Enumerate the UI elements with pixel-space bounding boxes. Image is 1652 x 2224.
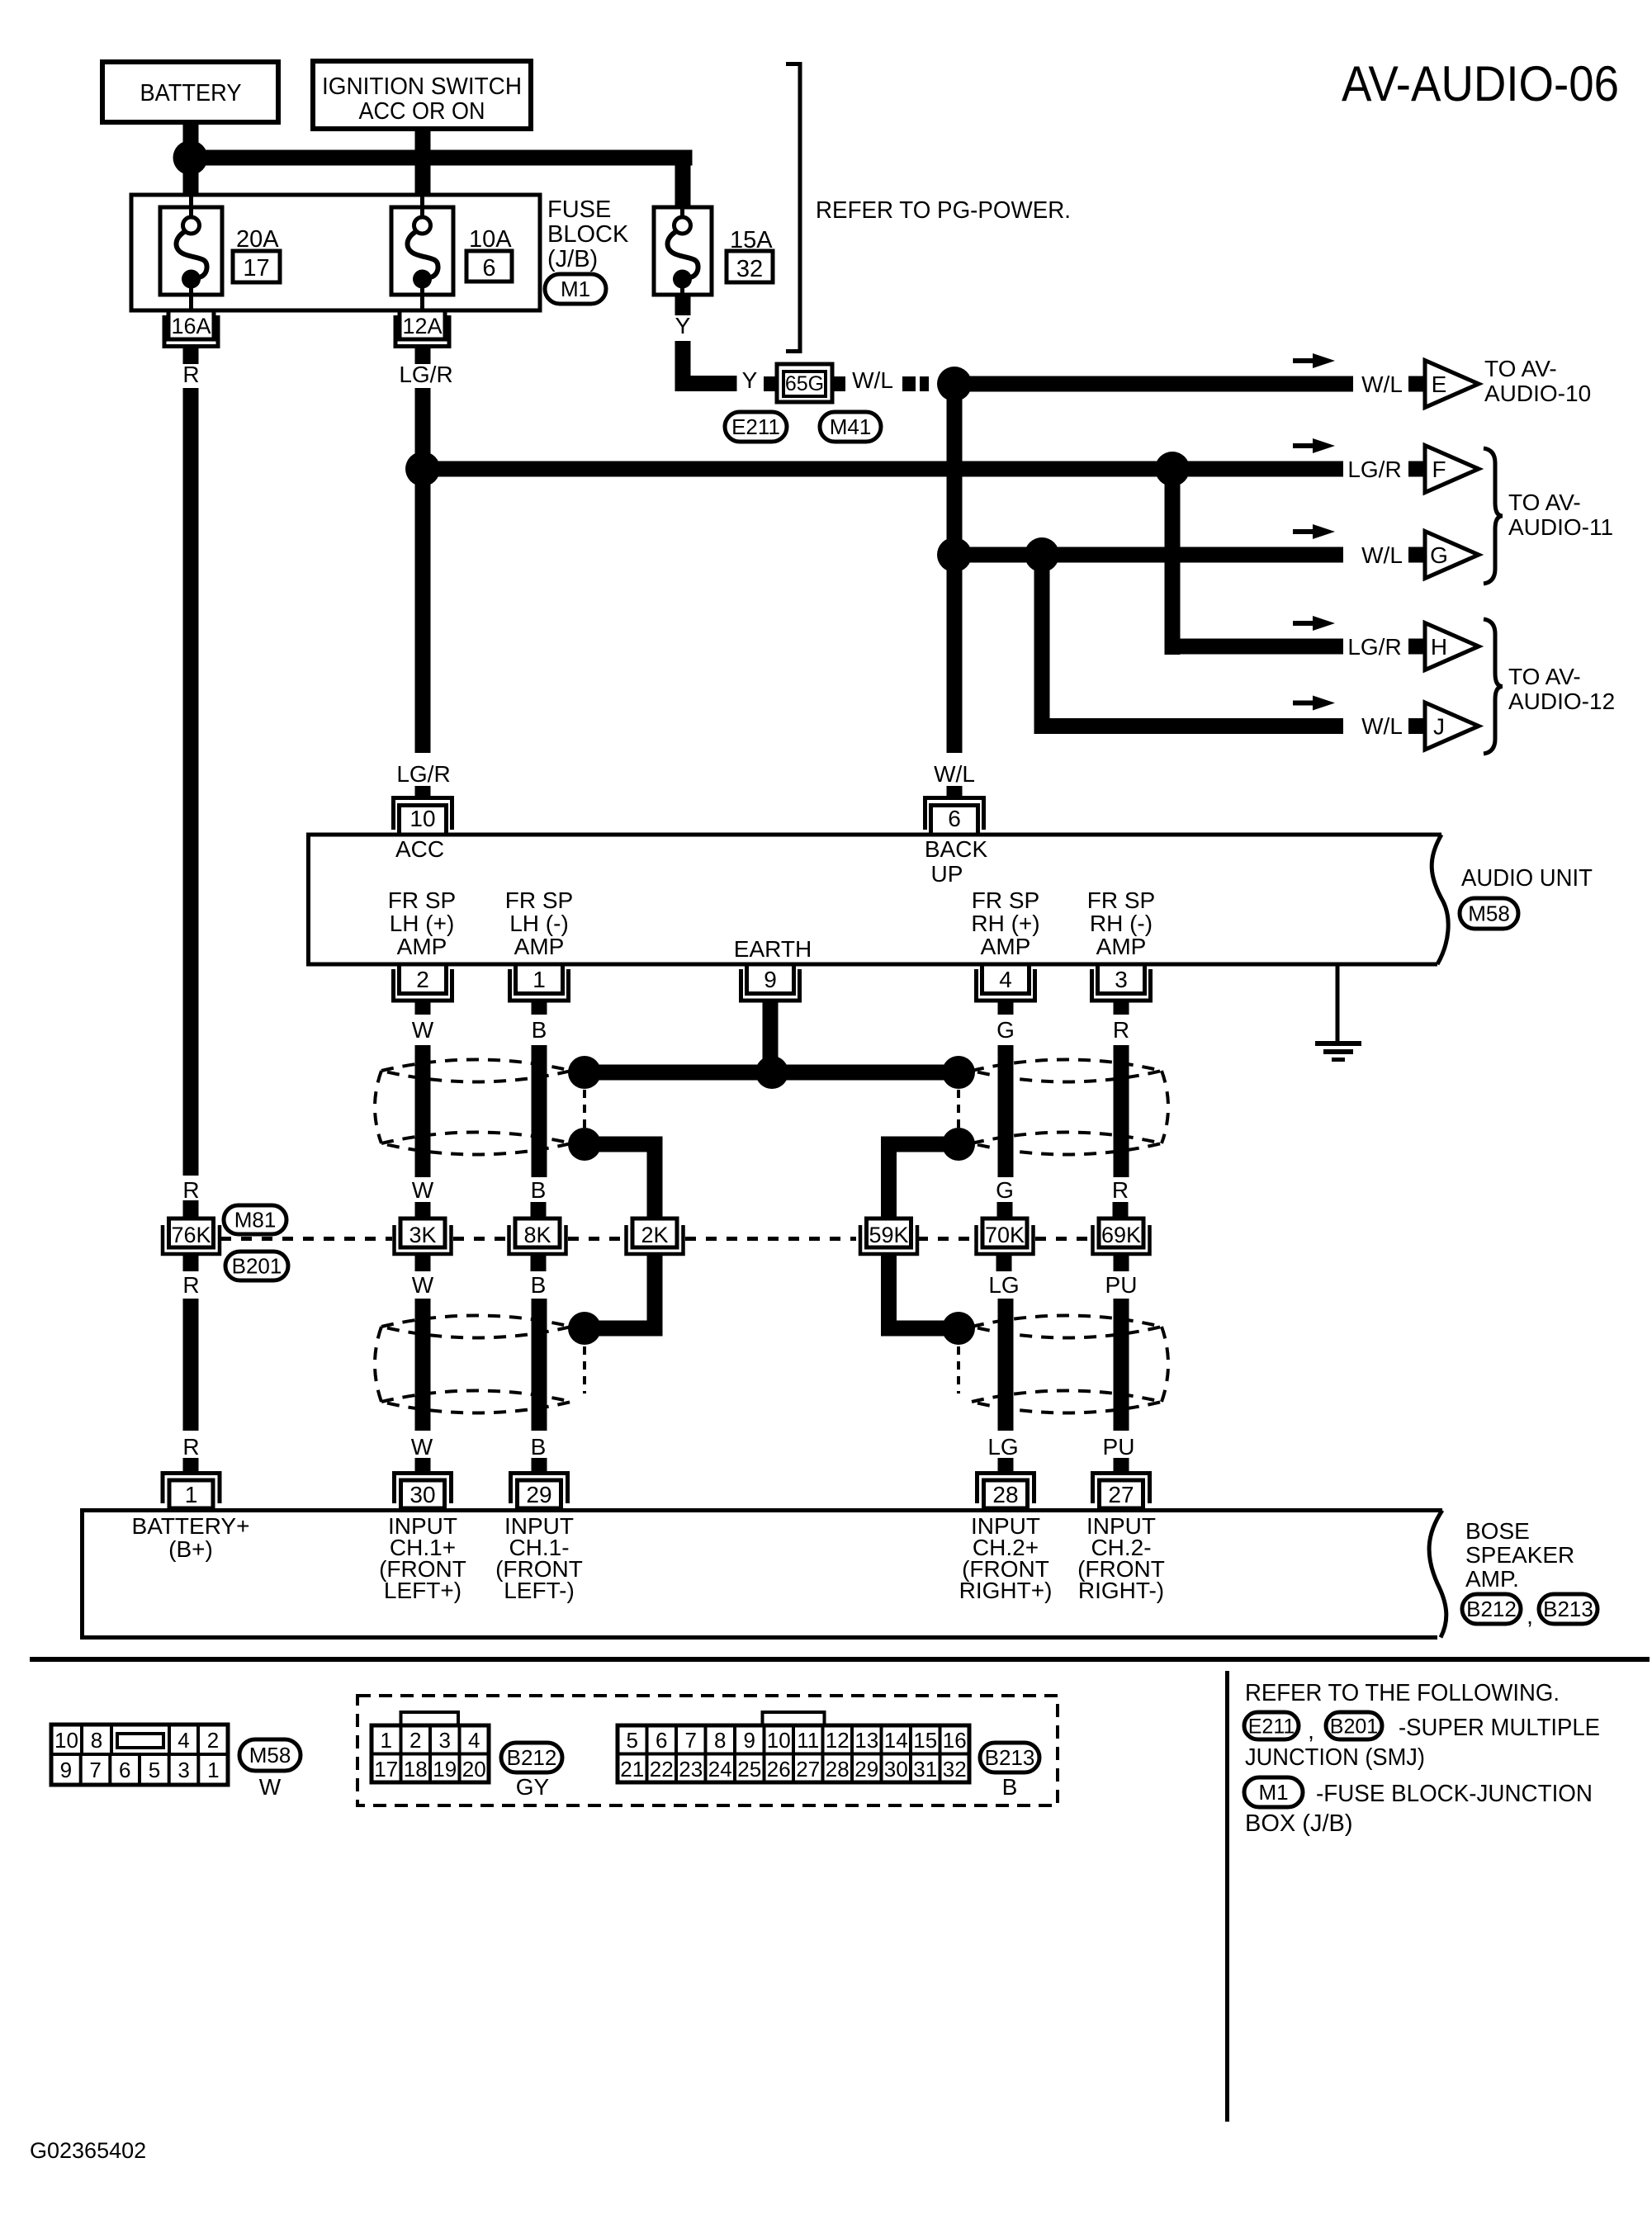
wire stub — [1114, 1256, 1129, 1271]
svg-text:LG/R: LG/R — [1347, 457, 1401, 482]
connector M58 oval — [239, 1739, 301, 1771]
svg-text:LG/R: LG/R — [396, 761, 450, 787]
ignition switch box — [313, 61, 531, 129]
svg-text:AMP: AMP — [397, 934, 447, 959]
svg-text:LEFT-): LEFT-) — [504, 1578, 575, 1603]
svg-text:17: 17 — [243, 255, 269, 282]
page arrow H — [1408, 639, 1424, 655]
svg-text:AUDIO-10: AUDIO-10 — [1484, 381, 1591, 406]
connector face M58 — [51, 1725, 228, 1785]
svg-text:M81: M81 — [234, 1208, 277, 1233]
svg-text:W: W — [412, 1272, 434, 1298]
connector M1 oval — [545, 274, 606, 304]
svg-text:BATTERY+: BATTERY+ — [132, 1513, 250, 1539]
wire LG/R vertical upper — [415, 388, 431, 753]
svg-text:6: 6 — [119, 1758, 130, 1782]
flow arrow — [1293, 358, 1318, 363]
svg-text:13: 13 — [854, 1728, 878, 1753]
wire LG/R to F — [423, 461, 1343, 477]
wire ignition feed — [415, 129, 431, 195]
fuse 10A #6 — [391, 207, 453, 295]
svg-text:LEFT+): LEFT+) — [384, 1578, 462, 1603]
shield front-right — [972, 1060, 1162, 1082]
brace AV-AUDIO-12 — [1484, 619, 1503, 754]
svg-text:10: 10 — [54, 1728, 78, 1753]
svg-text:B201: B201 — [232, 1254, 282, 1279]
svg-text:FR SP: FR SP — [1087, 887, 1155, 913]
connector B212 oval — [501, 1743, 562, 1772]
connector M81 oval — [224, 1205, 286, 1234]
connector M58 oval — [1460, 898, 1518, 929]
wire stub — [415, 1256, 431, 1271]
svg-text:UP: UP — [931, 861, 963, 887]
svg-text:23: 23 — [679, 1757, 703, 1782]
svg-text:59K: 59K — [869, 1223, 908, 1247]
brace AV-AUDIO-11 — [1484, 448, 1503, 584]
wire earth bus — [585, 1065, 959, 1081]
page arrow G — [1408, 547, 1424, 563]
junction dot shield FR — [942, 1128, 975, 1161]
pin 27 — [1100, 1480, 1143, 1508]
shield rear-right — [972, 1316, 1162, 1338]
fuse 20A #17 — [160, 207, 222, 295]
wire stub pin6 — [947, 786, 963, 796]
connector 16A — [168, 310, 214, 339]
svg-text:21: 21 — [620, 1757, 644, 1782]
svg-text:RIGHT-): RIGHT-) — [1078, 1578, 1164, 1603]
connector 70K — [982, 1218, 1027, 1247]
svg-text:TO AV-: TO AV- — [1508, 490, 1581, 515]
svg-text:G02365402: G02365402 — [30, 2138, 146, 2163]
dashed group box — [357, 1696, 1058, 1805]
svg-text:27: 27 — [1108, 1482, 1134, 1507]
svg-text:9: 9 — [764, 967, 777, 992]
svg-text:3K: 3K — [409, 1223, 436, 1247]
wire J drop — [1034, 555, 1050, 734]
svg-text:B212: B212 — [1466, 1597, 1517, 1621]
wire — [415, 1299, 431, 1431]
svg-text:30: 30 — [409, 1482, 435, 1507]
svg-text:R: R — [1113, 1017, 1129, 1043]
wire stub 16A — [183, 346, 199, 364]
separator line — [30, 1657, 1650, 1662]
svg-text:16A: 16A — [171, 314, 211, 338]
svg-text:69K: 69K — [1101, 1223, 1141, 1247]
svg-text:B: B — [1002, 1774, 1018, 1800]
wire power bus — [183, 150, 693, 166]
svg-text:2K: 2K — [641, 1223, 668, 1247]
svg-text:M41: M41 — [830, 414, 872, 439]
wire 2K lower — [647, 1254, 663, 1337]
svg-text:AMP: AMP — [981, 934, 1031, 959]
svg-text:FR SP: FR SP — [388, 887, 456, 913]
junction dot shield RL — [568, 1312, 601, 1345]
svg-text:W/L: W/L — [852, 367, 893, 393]
pin 29 — [518, 1480, 561, 1508]
svg-text:BOSE: BOSE — [1465, 1518, 1530, 1544]
svg-text:AMP: AMP — [514, 934, 565, 959]
wire battery feed — [183, 122, 199, 195]
wire — [532, 1299, 547, 1431]
wire — [1114, 1299, 1129, 1431]
svg-text:RH (-): RH (-) — [1090, 911, 1153, 936]
svg-text:1: 1 — [185, 1482, 198, 1507]
connector M1 oval — [1244, 1777, 1303, 1807]
svg-text:65G: 65G — [785, 372, 824, 395]
svg-text:IGNITION SWITCH: IGNITION SWITCH — [322, 73, 522, 100]
junction dot shield RR — [942, 1312, 975, 1345]
junction dot W/L bus — [937, 367, 972, 401]
wire stub — [532, 1001, 547, 1015]
wire battery R lower — [183, 1299, 199, 1431]
connector 12A — [400, 310, 445, 339]
wire stub — [183, 1256, 199, 1271]
wire stub — [531, 1202, 547, 1217]
connector B201 oval — [1326, 1712, 1382, 1739]
connector face B213 — [763, 1712, 825, 1725]
dashed link — [583, 1346, 586, 1394]
connector 76K — [169, 1218, 214, 1247]
wire — [415, 1045, 431, 1177]
svg-text:J: J — [1433, 714, 1445, 740]
svg-text:RH (+): RH (+) — [971, 911, 1039, 936]
svg-text:16: 16 — [943, 1728, 967, 1753]
svg-text:28: 28 — [992, 1482, 1018, 1507]
svg-text:30: 30 — [884, 1757, 908, 1782]
pin 6 — [931, 806, 978, 835]
svg-text:15: 15 — [913, 1728, 937, 1753]
svg-text:9: 9 — [60, 1758, 72, 1782]
pin 1 — [516, 964, 563, 994]
svg-text:EARTH: EARTH — [734, 936, 812, 962]
svg-text:RIGHT+): RIGHT+) — [959, 1578, 1053, 1603]
svg-text:24: 24 — [708, 1757, 732, 1782]
junction dot shield FL — [568, 1128, 601, 1161]
svg-text:G: G — [1430, 542, 1448, 568]
svg-text:32: 32 — [736, 256, 763, 282]
wire H drop — [1165, 469, 1181, 655]
svg-text:1: 1 — [381, 1728, 392, 1753]
wire stub — [415, 1458, 431, 1472]
shield rear-left — [381, 1316, 571, 1338]
wire W/L to E — [954, 376, 1353, 392]
connector 69K — [1099, 1218, 1143, 1247]
svg-text:M58: M58 — [1468, 901, 1510, 926]
svg-text:2: 2 — [416, 967, 429, 992]
legend divider — [1225, 1671, 1229, 2122]
flow arrow — [1293, 529, 1318, 534]
svg-text:B213: B213 — [985, 1745, 1035, 1770]
wire — [532, 1045, 547, 1177]
wire 59K lower — [881, 1254, 897, 1337]
page arrow J — [1408, 718, 1424, 734]
junction dot earth right — [942, 1056, 975, 1089]
svg-text:M1: M1 — [1258, 1780, 1288, 1805]
svg-text:-SUPER MULTIPLE: -SUPER MULTIPLE — [1399, 1715, 1600, 1741]
svg-text:11: 11 — [797, 1728, 819, 1753]
wire dash — [920, 376, 929, 391]
svg-text:Y: Y — [742, 367, 758, 393]
svg-text:20A: 20A — [236, 226, 279, 253]
svg-text:18: 18 — [404, 1757, 428, 1782]
svg-text:B201: B201 — [1330, 1715, 1378, 1739]
svg-text:(J/B): (J/B) — [547, 246, 598, 272]
svg-text:6: 6 — [482, 255, 495, 282]
svg-text:E211: E211 — [1248, 1715, 1295, 1739]
dashed link — [957, 1090, 960, 1128]
svg-text:8: 8 — [91, 1728, 102, 1753]
svg-text:3: 3 — [178, 1758, 189, 1782]
svg-text:LH (-): LH (-) — [509, 911, 569, 936]
fuse 15A #32 — [654, 207, 712, 295]
audio unit box — [309, 835, 1442, 964]
junction dot earth left — [568, 1056, 601, 1089]
svg-text:-FUSE BLOCK-JUNCTION: -FUSE BLOCK-JUNCTION — [1316, 1781, 1593, 1807]
svg-text:REFER TO THE FOLLOWING.: REFER TO THE FOLLOWING. — [1245, 1680, 1560, 1706]
connector B201 oval — [225, 1252, 288, 1280]
pin 4 — [982, 964, 1030, 994]
svg-text:Y: Y — [675, 313, 691, 338]
connector 2K — [632, 1218, 677, 1247]
svg-text:AMP.: AMP. — [1465, 1566, 1519, 1592]
wire shield drain left — [585, 1137, 663, 1152]
connector B213 oval — [980, 1743, 1039, 1772]
svg-text:W: W — [259, 1774, 282, 1800]
connector E211 oval — [725, 412, 787, 442]
svg-text:4: 4 — [178, 1728, 189, 1753]
svg-text:26: 26 — [767, 1757, 791, 1782]
svg-text:14: 14 — [884, 1728, 908, 1753]
svg-text:29: 29 — [526, 1482, 551, 1507]
junction dot LG/R — [405, 452, 440, 486]
svg-text:R: R — [1112, 1177, 1129, 1203]
svg-text:W/L: W/L — [934, 761, 975, 787]
svg-text:25: 25 — [737, 1757, 761, 1782]
terminal 32 box — [727, 251, 773, 282]
svg-text:ACC: ACC — [395, 836, 444, 862]
svg-text:6: 6 — [656, 1728, 667, 1753]
junction dot H drop — [1155, 452, 1190, 486]
svg-text:1: 1 — [207, 1758, 219, 1782]
svg-text:AUDIO-11: AUDIO-11 — [1508, 514, 1613, 540]
wire stub — [531, 1256, 547, 1271]
svg-text:AUDIO-12: AUDIO-12 — [1508, 688, 1615, 714]
svg-text:LH (+): LH (+) — [390, 911, 455, 936]
wire stub — [183, 1458, 199, 1472]
svg-text:SPEAKER: SPEAKER — [1465, 1542, 1574, 1568]
dashed link — [957, 1346, 960, 1394]
svg-text:B212: B212 — [507, 1745, 557, 1770]
svg-text:M58: M58 — [249, 1743, 291, 1767]
svg-text:BLOCK: BLOCK — [547, 221, 629, 248]
wire battery R vertical — [183, 388, 199, 1176]
bose speaker amp box — [83, 1511, 1443, 1638]
svg-text:LG/R: LG/R — [1347, 634, 1401, 660]
svg-text:4: 4 — [999, 967, 1012, 992]
junction dot earth mid — [755, 1056, 788, 1089]
connector 59K — [867, 1218, 911, 1247]
svg-text:29: 29 — [854, 1757, 878, 1782]
wire stub — [183, 1200, 199, 1217]
svg-text:E: E — [1432, 371, 1447, 397]
wire stub — [996, 1256, 1012, 1271]
pin 28 — [984, 1480, 1028, 1508]
svg-text:(B+): (B+) — [168, 1536, 213, 1562]
svg-text:W/L: W/L — [1361, 371, 1403, 397]
junction dot battery bus — [173, 140, 208, 175]
svg-text:6: 6 — [948, 806, 961, 831]
connector 8K — [515, 1218, 560, 1247]
svg-text:REFER TO PG-POWER.: REFER TO PG-POWER. — [816, 197, 1071, 224]
svg-text:G: G — [996, 1177, 1014, 1203]
wire stub — [415, 1001, 431, 1015]
svg-text:5: 5 — [149, 1758, 160, 1782]
dashed link — [583, 1090, 586, 1128]
pin 10 — [400, 806, 447, 835]
wire H row — [1165, 639, 1344, 655]
wire — [998, 1045, 1014, 1177]
svg-text:BACK: BACK — [925, 836, 988, 862]
svg-text:W: W — [411, 1434, 433, 1460]
wire stub pin10 — [415, 786, 431, 796]
wire — [1114, 1045, 1129, 1177]
svg-text:2: 2 — [409, 1728, 421, 1753]
wire dash — [902, 376, 916, 391]
wire Y elbow — [675, 341, 691, 391]
svg-text:2: 2 — [207, 1728, 219, 1753]
bracket refer to PG-POWER — [786, 64, 800, 352]
svg-text:R: R — [182, 1272, 199, 1298]
svg-text:FR SP: FR SP — [505, 887, 573, 913]
svg-text:R: R — [182, 362, 199, 387]
connector M41 oval — [820, 412, 881, 442]
pin 3 — [1098, 964, 1145, 994]
battery box — [102, 62, 278, 122]
connector E211 oval — [1244, 1712, 1299, 1739]
wire J row — [1034, 718, 1344, 734]
svg-text:FUSE: FUSE — [547, 196, 611, 223]
svg-text:LG: LG — [988, 1272, 1019, 1298]
svg-text:,: , — [1527, 1603, 1533, 1629]
svg-text:F: F — [1432, 457, 1446, 482]
svg-text:TO AV-: TO AV- — [1508, 664, 1581, 689]
page arrow E — [1408, 376, 1424, 392]
svg-text:LG/R: LG/R — [399, 362, 452, 387]
svg-text:W/L: W/L — [1361, 713, 1403, 739]
svg-text:H: H — [1431, 634, 1447, 660]
wire W/L main vertical — [947, 384, 963, 753]
shield front-left — [381, 1060, 571, 1082]
wire stub — [998, 1458, 1014, 1472]
svg-text:JUNCTION (SMJ): JUNCTION (SMJ) — [1245, 1744, 1425, 1771]
svg-text:12: 12 — [826, 1728, 850, 1753]
svg-text:7: 7 — [89, 1758, 101, 1782]
wire stub — [997, 1202, 1013, 1217]
wire dash — [764, 376, 776, 391]
svg-text:R: R — [182, 1177, 199, 1203]
svg-text:,: , — [1308, 1718, 1314, 1744]
pin 2 — [400, 964, 447, 994]
connector 65G — [777, 364, 832, 402]
svg-text:28: 28 — [826, 1757, 850, 1782]
svg-text:PU: PU — [1103, 1434, 1135, 1460]
svg-text:9: 9 — [744, 1728, 755, 1753]
svg-text:W: W — [412, 1177, 434, 1203]
svg-text:M1: M1 — [561, 277, 590, 301]
wire stub 12A — [415, 346, 431, 364]
page arrow F — [1408, 461, 1424, 477]
wire stub — [998, 1001, 1014, 1015]
svg-text:AV-AUDIO-06: AV-AUDIO-06 — [1342, 56, 1619, 111]
wire 15A fuse drop — [675, 158, 691, 209]
svg-text:AMP: AMP — [1096, 934, 1147, 959]
connector face B212 — [401, 1712, 459, 1725]
svg-text:70K: 70K — [985, 1223, 1025, 1247]
svg-text:B: B — [531, 1434, 547, 1460]
svg-text:31: 31 — [913, 1757, 937, 1782]
svg-text:17: 17 — [374, 1757, 398, 1782]
svg-text:20: 20 — [462, 1757, 486, 1782]
svg-text:3: 3 — [1115, 967, 1128, 992]
pin 30 — [401, 1480, 445, 1508]
terminal 17 box — [233, 251, 280, 282]
svg-text:LG: LG — [987, 1434, 1018, 1460]
wire stub fuse 32 — [675, 295, 691, 315]
connector B213 oval — [1539, 1594, 1598, 1624]
fuse block J/B box — [131, 195, 540, 310]
pin 9 — [747, 964, 794, 994]
svg-text:AUDIO UNIT: AUDIO UNIT — [1461, 865, 1593, 892]
svg-text:PU: PU — [1105, 1272, 1138, 1298]
svg-text:1: 1 — [533, 967, 546, 992]
svg-text:12A: 12A — [402, 314, 442, 338]
svg-text:BOX (J/B): BOX (J/B) — [1245, 1810, 1353, 1837]
svg-text:BATTERY: BATTERY — [140, 80, 242, 106]
wire — [998, 1299, 1014, 1431]
wire W/L to G — [954, 547, 1343, 563]
svg-text:R: R — [182, 1434, 199, 1460]
connector 3K — [400, 1218, 445, 1247]
svg-text:10: 10 — [409, 806, 435, 831]
svg-text:B213: B213 — [1543, 1597, 1593, 1621]
junction dot G row a — [937, 537, 972, 572]
wire stub pin9 to earth bus — [763, 1001, 779, 1075]
svg-text:B: B — [531, 1177, 547, 1203]
svg-text:32: 32 — [943, 1757, 967, 1782]
svg-text:B: B — [532, 1017, 547, 1043]
svg-text:10: 10 — [767, 1728, 791, 1753]
flow arrow — [1293, 701, 1318, 706]
svg-text:E211: E211 — [731, 414, 780, 439]
svg-text:3: 3 — [439, 1728, 451, 1753]
svg-text:TO AV-: TO AV- — [1484, 356, 1557, 381]
svg-text:27: 27 — [796, 1757, 820, 1782]
wire shield drain right — [881, 1137, 959, 1152]
SMJ dashed line — [220, 1237, 392, 1241]
svg-text:8: 8 — [714, 1728, 726, 1753]
svg-text:GY: GY — [516, 1774, 550, 1800]
pin 1 battery+ — [169, 1480, 213, 1508]
ground — [1336, 964, 1340, 1043]
flow arrow — [1293, 621, 1318, 626]
svg-text:10A: 10A — [469, 226, 512, 253]
svg-text:8K: 8K — [523, 1223, 551, 1247]
junction dot G row b — [1025, 537, 1059, 572]
wire stub — [1113, 1202, 1129, 1217]
svg-text:22: 22 — [650, 1757, 674, 1782]
svg-text:76K: 76K — [171, 1223, 211, 1247]
wire dash — [832, 376, 845, 391]
